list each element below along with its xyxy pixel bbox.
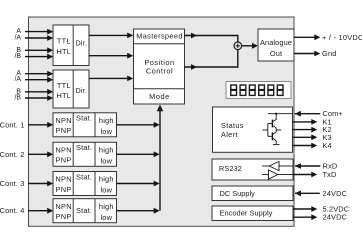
output K2 [293,129,312,131]
controller block (Masterspeed / Position Control / Mode) [134,29,185,104]
svg-text:PNP: PNP [56,185,72,194]
RS232 block [212,159,293,180]
control input block 3 (NPN/PNP | Stat. | high/low) [53,172,117,196]
svg-text:/B: /B [14,95,21,102]
svg-text:PNP: PNP [56,126,72,135]
svg-text:low: low [100,213,112,222]
wire [25,56,48,58]
output K3 [293,136,312,138]
svg-text:Mode: Mode [149,92,170,101]
svg-text:Cont. 1: Cont. 1 [0,120,25,129]
svg-text:/B: /B [14,53,21,60]
wire [28,183,48,185]
svg-text:Alert: Alert [221,130,238,139]
output Gnd [294,53,315,55]
svg-text:Masterspeed: Masterspeed [136,32,183,41]
Analogue Out block [258,29,294,61]
svg-text:TTL: TTL [57,81,71,90]
output 5.2VDC [293,208,312,210]
output +/-10VDC [294,36,315,38]
enclosure box [29,17,295,226]
svg-text:high: high [99,175,114,184]
svg-text:Cont. 2: Cont. 2 [0,150,25,159]
wire [25,97,48,99]
RS232 driver buffer [269,170,278,179]
svg-text:HTL: HTL [56,47,71,56]
wire Position Control to summing junction [185,66,239,68]
wire Cont.2 to mode bus [117,153,155,155]
control input block 2 (NPN/PNP | Stat. | high/low) [53,142,117,166]
wire Masterspeed to summing junction [185,35,239,37]
wire [28,153,48,155]
svg-text:Stat.: Stat. [76,206,92,215]
svg-text:Stat.: Stat. [76,114,92,123]
svg-text:DC Supply: DC Supply [220,189,256,198]
svg-text:Status: Status [221,121,244,130]
svg-text:/A: /A [14,76,21,83]
svg-text:Stat.: Stat. [76,143,92,152]
input RxD [295,165,320,167]
wire [25,79,48,81]
input Com+ [295,113,321,115]
wire [25,31,48,33]
svg-text:Cont. 4: Cont. 4 [0,206,25,215]
Encoder Supply block [212,206,293,221]
svg-text:/A: /A [14,35,21,42]
wire [25,37,48,39]
wire summing junction to Analogue Out [241,45,252,47]
wire [25,73,48,75]
wire [25,91,48,93]
svg-text:low: low [100,157,112,166]
svg-text:24VDC: 24VDC [323,213,348,222]
svg-text:Cont. 3: Cont. 3 [0,179,25,188]
svg-text:Dir.: Dir. [76,86,88,95]
svg-text:+ / - 10VDC: + / - 10VDC [322,33,362,42]
wire Cont.4 to mode bus [117,210,155,212]
svg-text:high: high [99,116,114,125]
svg-text:Control: Control [146,66,173,75]
svg-text:low: low [100,127,112,136]
summing junction [234,42,242,50]
svg-text:PNP: PNP [56,212,72,221]
svg-text:NPN: NPN [55,175,72,184]
svg-text:Out: Out [270,49,282,58]
control input block 1 (NPN/PNP | Stat. | high/low) [53,113,117,137]
mode bus wire [159,111,161,211]
svg-text:K4: K4 [323,141,332,150]
svg-text:Encoder Supply: Encoder Supply [220,209,273,218]
svg-text:RS232: RS232 [219,164,242,173]
svg-text:high: high [99,202,114,211]
svg-text:TTL: TTL [57,37,71,46]
output K1 [293,121,312,123]
svg-text:NPN: NPN [55,202,72,211]
DC Supply block [212,186,293,201]
wire Cont.3 to mode bus [117,183,155,185]
wire U2 out to Position Control [89,77,128,79]
svg-text:Stat.: Stat. [76,172,92,181]
input 24VDC [295,192,320,194]
svg-text:HTL: HTL [56,91,71,100]
RS232 receiver buffer [269,161,279,170]
7-segment display [226,82,291,99]
wire [28,124,48,126]
output node dash [276,129,281,131]
wire [25,49,48,51]
output K4 [293,145,312,147]
svg-text:TxD: TxD [323,170,337,179]
svg-text:low: low [100,186,112,195]
svg-text:Gnd: Gnd [322,49,337,58]
Status Alert block [213,107,293,152]
svg-text:Analogue: Analogue [260,38,292,47]
wire U1 out B to Position Control [89,55,128,57]
output TxD [293,174,312,176]
TTL/HTL converter U1 [53,25,89,66]
wire U1 out A to Masterspeed [89,34,128,36]
TTL/HTL converter U2 [53,70,89,108]
control input block 4 (NPN/PNP | Stat. | high/low) [53,199,117,223]
svg-text:24VDC: 24VDC [323,189,348,198]
svg-text:high: high [99,146,114,155]
output 24VDC (encoder) [293,216,312,218]
wire Cont.1 to mode bus [117,124,155,126]
wire [28,210,48,212]
svg-text:NPN: NPN [55,116,72,125]
svg-text:PNP: PNP [56,156,72,165]
svg-text:Dir.: Dir. [76,39,88,48]
svg-text:NPN: NPN [55,146,72,155]
transistor pair Q1/Q2 (push-pull) [268,113,293,115]
